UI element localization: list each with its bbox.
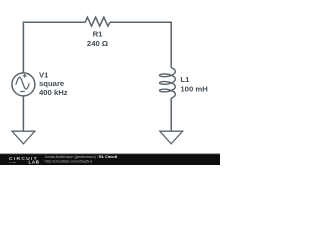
wire L1 to ground [170,98,172,131]
wire top from V1 to R1 [23,22,85,73]
svg-text:http://circuitlab.com/c5ay5uz: http://circuitlab.com/c5ay5uz [45,159,93,163]
svg-text:Jonas Andersson (jandersson) /: Jonas Andersson (jandersson) / RL Circui… [45,155,118,159]
V1 sine wave [16,77,29,89]
svg-text:square: square [39,79,65,88]
V1 minus sign [20,91,24,93]
ground symbol right [160,131,183,144]
svg-text:100 mH: 100 mH [180,85,208,94]
resistor R1 [85,17,110,26]
svg-text:R1: R1 [93,30,104,39]
footer watermark bar [0,154,220,165]
svg-text:L1: L1 [180,75,190,84]
voltage source V1 circle [12,73,35,96]
V1 plus sign [23,74,27,78]
wire V1 to ground [22,96,24,131]
svg-text:V1: V1 [39,70,49,79]
inductor L1 coil [160,68,176,99]
ground symbol left [12,131,35,144]
svg-text:400 kHz: 400 kHz [39,88,68,97]
svg-text:240 Ω: 240 Ω [87,39,108,48]
wire from R1 to L1 [110,22,171,68]
